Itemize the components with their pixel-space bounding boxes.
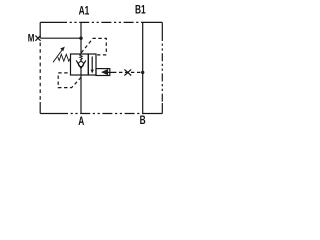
valve V1 pilot compartment box <box>88 54 96 75</box>
wire: port A1 line down to valve <box>80 22 82 54</box>
svg-text:B: B <box>140 114 146 128</box>
pilot connection box (right of valve) <box>96 69 110 76</box>
pilot piston down-arrow in compartment <box>91 57 93 71</box>
check valve inline spring above ball <box>80 54 83 60</box>
wire: gauge line M to node on A-line <box>40 37 81 39</box>
enclosure boundary right edge (chain line) <box>161 22 163 33</box>
adjustable relief spring (left of valve) <box>58 54 71 61</box>
svg-text:A1: A1 <box>79 4 90 18</box>
enclosure boundary bottom edge (chain line) <box>40 113 58 115</box>
port M plug symbol (crossed lines) <box>35 36 40 41</box>
node: junction M-line / A-line <box>79 37 82 40</box>
check valve ball <box>78 62 83 67</box>
pilot passage dashed flag (upper) <box>81 38 106 54</box>
wire: pilot line solid stub <box>108 71 113 73</box>
node: pilot tee on B-line <box>141 71 144 74</box>
svg-text:B1: B1 <box>135 3 146 17</box>
pilot flow arrowhead (solid, pointing left into valve) <box>101 69 108 75</box>
arrow onto ball <box>80 59 83 61</box>
pilot passage dashed flag (lower) <box>58 73 81 88</box>
adjustment arrow across spring <box>53 50 62 63</box>
wire: pilot line dashed from B-line <box>113 71 143 73</box>
orifice/plug X on pilot line <box>124 69 131 75</box>
wire: V vertex to box bottom <box>80 68 82 75</box>
valve V1 main body box <box>71 54 89 75</box>
svg-text:A: A <box>78 115 84 129</box>
wire: valve to port A line <box>80 75 82 114</box>
enclosure boundary top edge (chain line, housing) <box>40 21 57 23</box>
wire: port B1 to port B line <box>142 22 144 113</box>
check valve poppet seat (V) <box>76 60 86 68</box>
svg-text:M: M <box>28 32 35 45</box>
enclosure boundary left edge (chain line) <box>39 22 41 38</box>
